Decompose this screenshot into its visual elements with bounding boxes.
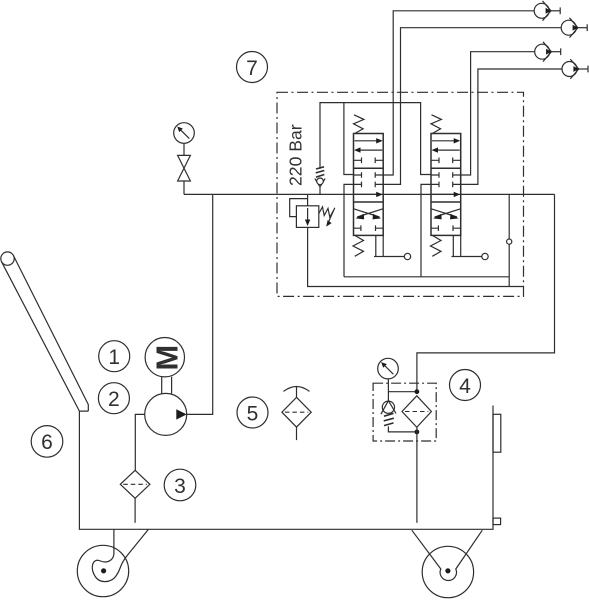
- pump flow triangle: [176, 409, 186, 419]
- svg-text:5: 5: [247, 402, 259, 425]
- directional valve DV1: [353, 115, 411, 260]
- directional valve DV2: [431, 115, 489, 260]
- rear castor wheel: [412, 530, 483, 598]
- wire measuring port drop: [508, 194, 510, 286]
- quick coupling QC3: [535, 42, 561, 62]
- relief valve RV1 tap: [307, 194, 309, 205]
- wire main pressure line P: [184, 193, 555, 195]
- junction dot bottom: [415, 430, 420, 435]
- measuring port MP1: [507, 239, 512, 244]
- item label 1: [99, 341, 130, 372]
- svg-text:1: 1: [108, 346, 120, 369]
- drive shaft: [162, 377, 172, 394]
- bypass check valve CV2: [381, 401, 396, 426]
- wire gauge2 stem: [387, 379, 389, 401]
- return filter F2: [402, 396, 431, 428]
- svg-text:3: 3: [174, 475, 186, 498]
- wire coupling line 3: [461, 52, 535, 175]
- wire feed drop to valve DV1: [344, 103, 354, 175]
- wire tank rail (valve drains): [344, 276, 509, 278]
- wire bypass bottom branch: [388, 426, 417, 432]
- svg-text:M: M: [150, 345, 185, 371]
- item label 6: [31, 426, 63, 458]
- check valve CV1 (feed): [315, 167, 325, 187]
- wire relief to tank rail: [308, 227, 524, 286]
- handle rod: [2, 262, 80, 411]
- relief valve RV1: [290, 199, 335, 228]
- breather 5: [282, 386, 311, 440]
- item label 3: [164, 469, 196, 501]
- wire return dip tube: [416, 427, 418, 523]
- quick coupling QC4: [562, 59, 588, 79]
- pressure gauge PG2: [378, 358, 399, 379]
- pressure gauge PG1: [174, 123, 195, 144]
- junction dot top: [415, 389, 420, 394]
- svg-text:7: 7: [246, 57, 258, 80]
- wire suction line: [135, 414, 144, 470]
- quick coupling QC2: [561, 18, 587, 38]
- wire check valve to pressure line: [319, 187, 321, 194]
- wire valve DV1 drain: [344, 184, 354, 276]
- item label 2: [98, 383, 129, 414]
- return filter assembly box 4: [373, 383, 436, 441]
- item label 7: [237, 52, 268, 83]
- item label 4: [450, 370, 481, 401]
- wire shutoff to pressure line: [183, 181, 185, 194]
- pump P1: [145, 393, 187, 435]
- shutoff valve V1 (gauge isolator): [178, 155, 191, 181]
- handle grip cap: [1, 252, 14, 265]
- wire internal feed gallery: [320, 103, 431, 175]
- item label 5: [237, 397, 268, 428]
- svg-text:6: 6: [41, 431, 53, 454]
- wire pump riser: [187, 194, 213, 414]
- svg-text:4: 4: [459, 375, 471, 398]
- wire valve DV2 drain: [421, 184, 431, 276]
- wire coupling line 2: [383, 28, 561, 185]
- wire suction dip tube: [134, 498, 136, 523]
- tank / trolley body 6: [79, 406, 493, 530]
- drain plug stub: [493, 518, 501, 525]
- electric motor M: [145, 338, 184, 377]
- wire bypass top branch: [388, 391, 417, 393]
- dashed enclosure box 7 (valve manifold boundary): [277, 92, 524, 296]
- wire gauge stem: [183, 143, 185, 155]
- quick coupling QC1: [534, 1, 560, 21]
- oil level gauge: [493, 414, 501, 452]
- suction filter F1: [120, 470, 150, 498]
- wire coupling line 1: [383, 11, 534, 175]
- wire carryover return line: [417, 194, 555, 391]
- svg-text:2: 2: [108, 388, 120, 411]
- svg-text:220 Bar: 220 Bar: [286, 124, 306, 186]
- wire coupling line 4: [461, 69, 562, 184]
- front castor wheel: [77, 529, 148, 596]
